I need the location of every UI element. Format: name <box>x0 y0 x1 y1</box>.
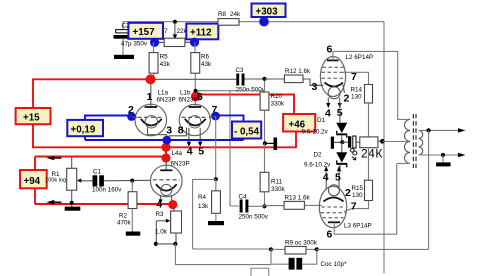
voltage label +0,19 <box>67 120 103 136</box>
potentiometer R1 100k log <box>45 157 82 207</box>
red node dot L4a anode top <box>161 143 170 152</box>
voltage label +303 <box>252 4 286 18</box>
triode L1a 6N23P envelope <box>135 104 167 136</box>
node dot R10/R11 midpoint <box>263 141 267 145</box>
L2 cathode stub pin 2 <box>343 85 345 94</box>
wire L1b anode to C4 (top segment) <box>196 91 239 206</box>
svg-text:R10: R10 <box>271 93 283 100</box>
resistor R4 13k <box>198 179 220 221</box>
svg-text:2: 2 <box>345 187 351 199</box>
node dot R9 left <box>269 247 273 251</box>
node blue dot left of 22k <box>150 38 159 47</box>
voltage label +157 <box>128 23 163 39</box>
L2 grid1 entry <box>310 84 324 86</box>
pentode L3 6P14P envelope <box>319 186 346 227</box>
svg-text:R5: R5 <box>160 54 169 61</box>
resistor R13 1.6k <box>265 195 323 210</box>
node dot secondary top / feedback <box>427 128 431 132</box>
node dot zener/cap <box>340 140 344 144</box>
L1b heater leads with arrows pins 4 5 <box>187 128 205 158</box>
svg-text:R14: R14 <box>351 87 363 94</box>
resistor R15 130 <box>344 148 373 212</box>
tube label L4a 6N23P <box>171 150 190 168</box>
red node dot L1b anode pin6 <box>191 91 201 101</box>
node A dot (C3/R12/R10) <box>262 77 266 81</box>
red wire measurement line mid (y147) <box>32 146 296 148</box>
svg-text:6N23P: 6N23P <box>171 160 190 167</box>
svg-text:4: 4 <box>323 172 329 184</box>
capacitor C1 100n 160v <box>82 168 151 193</box>
wire feedback riser <box>428 130 430 249</box>
L4a grid (dashed) <box>153 179 180 181</box>
transformer core <box>413 114 416 168</box>
L1a heater ring <box>145 116 157 128</box>
svg-text:4: 4 <box>325 108 331 120</box>
svg-text:7: 7 <box>351 71 357 83</box>
wire branch y90.7 to R10 top <box>230 90 265 92</box>
svg-text:4: 4 <box>187 146 193 158</box>
svg-text:6: 6 <box>197 91 203 103</box>
resistor R14 130 <box>351 85 373 137</box>
ground bar secondary <box>436 162 451 166</box>
tube label L1a 6N23P <box>157 89 176 103</box>
svg-text:13k: 13k <box>198 203 209 210</box>
svg-text:+0,19: +0,19 <box>71 125 96 136</box>
resistor R2 470k <box>117 181 137 232</box>
red wire +46 riser bottom <box>295 132 297 149</box>
svg-text:3: 3 <box>312 81 318 93</box>
svg-text:+157: +157 <box>133 27 156 38</box>
svg-text:47µ 350v: 47µ 350v <box>121 41 148 48</box>
svg-text:L1a: L1a <box>158 89 169 96</box>
L3 heater leads arrows pins 4 5 <box>323 166 341 190</box>
svg-text:24К: 24К <box>361 147 383 161</box>
L1b grid (dashed) <box>182 116 209 118</box>
transformer primary bottom stub <box>397 163 410 165</box>
capacitor cathode bypass (electrolytic) <box>342 136 356 148</box>
wire pin2 into L1a grid <box>132 116 138 118</box>
L1a cathode lead <box>148 128 167 140</box>
L4a anode plate and lead <box>160 160 172 170</box>
svg-text:1: 1 <box>147 91 153 103</box>
svg-text:1.0k: 1.0k <box>155 229 168 236</box>
L4a cathode arc <box>156 184 177 191</box>
ground below C2 <box>114 55 134 59</box>
L1b cathode arc <box>185 119 206 126</box>
L3 anode plate and lead to transformer <box>328 164 397 235</box>
L4a heater/cathode leads <box>159 195 172 204</box>
resistor R5 43k <box>149 42 171 79</box>
svg-text:R11: R11 <box>271 179 283 186</box>
red wire L1b anode to +46 (horizontal) <box>198 94 294 96</box>
L3 heater circle <box>329 185 340 196</box>
svg-text:8: 8 <box>178 125 184 137</box>
svg-text:43k: 43k <box>201 61 212 68</box>
wire midpoint to ground bar <box>265 142 274 144</box>
blue wire grid L1a loop (left) <box>85 116 132 141</box>
svg-text:3: 3 <box>166 125 172 137</box>
svg-text:+112: +112 <box>190 28 212 39</box>
svg-text:330k: 330k <box>271 100 286 107</box>
resistor R11 330k <box>260 143 285 206</box>
svg-text:130: 130 <box>351 94 362 101</box>
L2 cathode arc <box>325 83 344 87</box>
secondary ground lead <box>442 155 444 162</box>
svg-text:130: 130 <box>352 192 363 199</box>
svg-text:R4: R4 <box>198 194 207 201</box>
wire feedback bottom rail y249 <box>193 248 271 250</box>
svg-text:6N23P: 6N23P <box>179 96 198 103</box>
red wire input line top y156.5 <box>35 156 166 158</box>
svg-text:D2: D2 <box>314 152 323 159</box>
red node dot L4a anode <box>161 153 170 162</box>
blue node dot pin2 <box>127 112 136 121</box>
svg-text:D1: D1 <box>317 117 326 124</box>
svg-text:100k log: 100k log <box>45 178 66 184</box>
wire feedback branch to lower left corner <box>193 179 216 249</box>
wire center tap to primary <box>382 141 406 143</box>
svg-text:24k: 24k <box>230 11 241 18</box>
L2 heater circle <box>328 87 340 99</box>
node dot B+ / center tap <box>380 139 385 144</box>
svg-text:+15: +15 <box>23 112 40 123</box>
svg-text:9.6-10.2v: 9.6-10.2v <box>302 129 329 136</box>
svg-text:2: 2 <box>344 93 350 105</box>
L2 screen tap wire to R14 <box>343 72 369 84</box>
zener D1 <box>302 103 348 142</box>
tube label L1b 6N23P <box>179 89 198 103</box>
L1a grid (dashed) <box>138 116 165 118</box>
node dot secondary bottom <box>441 153 445 157</box>
L4a heater circle <box>161 184 172 195</box>
node dot R9 right <box>315 247 319 251</box>
voltage label +15 <box>16 108 51 124</box>
capacitor C3 250n 500v <box>236 67 266 94</box>
svg-text:- 0,54: - 0,54 <box>234 127 260 138</box>
svg-text:L3 6P14P: L3 6P14P <box>344 223 372 230</box>
L2 grids (dashed rows) <box>322 67 345 78</box>
svg-text:R8: R8 <box>218 11 227 18</box>
ground bar (vertical) at R10/R11 midpoint <box>274 138 278 151</box>
wire L1a anode to C3 <box>151 78 237 80</box>
svg-text:L4a: L4a <box>172 150 183 157</box>
wire top supply rail <box>123 22 384 30</box>
input arrow bottom <box>47 200 62 205</box>
red wire +46 riser top <box>293 94 295 114</box>
voltage label -0,54 <box>232 122 261 139</box>
svg-text:470k: 470k <box>117 220 132 227</box>
capacitor Coc 10p* (parallel R9) <box>251 249 347 276</box>
node dot R3 wiper <box>154 242 158 246</box>
svg-text:L2 6P14P: L2 6P14P <box>346 54 374 61</box>
output arrow top <box>458 128 466 132</box>
red wire L1a anode to +15 (horizontal) <box>33 78 151 80</box>
secondary bottom lead <box>419 154 461 156</box>
resistor R8 24k <box>218 11 241 25</box>
capacitor C2 47u 350v <box>114 22 148 54</box>
svg-text:6: 6 <box>327 44 333 56</box>
svg-text:9.6-10.2v: 9.6-10.2v <box>304 162 331 169</box>
node dot pin7/R4/feedback <box>214 177 218 181</box>
resistor R10 330k <box>260 81 285 143</box>
cropped label box bottom edge <box>251 268 269 276</box>
svg-text:R9 oc 300k: R9 oc 300k <box>285 239 318 246</box>
triode L1b 6N23P envelope <box>179 104 210 135</box>
node blue dot below +303 <box>259 17 269 27</box>
transformer primary top stub <box>397 118 410 120</box>
ground bar (vertical) left of zener node <box>331 137 334 149</box>
triode L4a 6N23P envelope <box>151 165 183 197</box>
wire pin7 into L1b grid <box>209 116 216 119</box>
node dot C1/R2/L4a grid <box>130 179 134 183</box>
resistor R6 43k <box>191 42 212 106</box>
svg-text:5: 5 <box>198 146 204 158</box>
svg-text:7: 7 <box>164 28 168 35</box>
svg-text:43k: 43k <box>160 61 171 68</box>
transformer primary winding <box>405 119 411 163</box>
resistor R12 1.6k <box>265 68 312 83</box>
svg-text:250n 500v: 250n 500v <box>239 214 269 221</box>
red wire +94 riser bottom <box>34 188 36 204</box>
wire B+ vertical right <box>383 22 385 274</box>
ground below R4 <box>208 221 224 225</box>
svg-text:+94: +94 <box>24 176 41 187</box>
node dot R3 bottom <box>173 242 177 246</box>
blue node dot pin7 <box>211 112 220 121</box>
wire R9 right to feedback riser <box>317 248 429 250</box>
red node dot L4a cathode <box>168 200 177 209</box>
L1a anode plate and lead <box>145 84 157 107</box>
node B dot (C4/R11/R13) <box>262 204 266 208</box>
voltage label +94 <box>20 170 47 188</box>
red link between dots <box>165 147 167 158</box>
L1b heater ring <box>189 116 201 128</box>
L1b cathode lead <box>169 128 186 140</box>
L3 grids (dashed rows) <box>321 207 346 218</box>
red wire +15 riser top <box>32 78 34 108</box>
trimmer potentiometer 22k <box>155 22 195 47</box>
R3 bottom lead <box>175 233 177 244</box>
svg-text:C1: C1 <box>93 168 102 175</box>
pentode L2 6P14P envelope <box>320 57 345 97</box>
blue wire cathode rail y139.5 <box>85 139 244 141</box>
svg-text:R3: R3 <box>156 211 165 218</box>
ground below R1 <box>65 207 81 211</box>
input arrow top <box>47 156 62 161</box>
svg-text:R2: R2 <box>119 212 128 219</box>
secondary top lead <box>419 129 461 131</box>
svg-text:L1b: L1b <box>180 89 191 96</box>
svg-text:6: 6 <box>327 229 333 241</box>
svg-text:+303: +303 <box>256 7 279 18</box>
L1b anode plate <box>189 106 201 108</box>
node small dot L1b anode branch <box>194 89 198 93</box>
voltage label +112 <box>186 24 218 40</box>
voltage label +46 <box>283 114 315 132</box>
resistor R9 oc 300k <box>271 239 318 254</box>
transformer secondary winding <box>419 130 423 155</box>
wire R3 bottom rail <box>156 243 176 245</box>
red node dot L1a anode <box>146 74 156 84</box>
blue wire grid L1b loop (right vertical) <box>216 115 244 140</box>
output arrow bottom <box>458 153 466 157</box>
svg-text:6N23P: 6N23P <box>157 96 176 103</box>
svg-text:5: 5 <box>335 172 341 184</box>
L2 heater leads arrows pins 4 5 <box>325 98 343 120</box>
svg-text:Coc 10p*: Coc 10p* <box>321 261 347 268</box>
resistor 24K (to B+) <box>356 137 382 148</box>
svg-text:7: 7 <box>351 201 357 213</box>
red wire +94 riser top <box>34 157 36 171</box>
wire C3 to node A <box>245 78 265 80</box>
svg-text:R13 1.6k: R13 1.6k <box>285 195 311 202</box>
ground below R2 <box>126 232 141 236</box>
L3 cathode arc <box>324 198 344 202</box>
potentiometer R3 1.0k <box>155 205 182 244</box>
node dot on top rail <box>173 20 177 24</box>
cursor mark <box>350 148 356 159</box>
svg-text:R6: R6 <box>201 54 210 61</box>
svg-text:4: 4 <box>156 199 162 211</box>
L2 anode plate and lead to transformer <box>327 51 398 119</box>
svg-text:100n 160v: 100n 160v <box>92 186 122 193</box>
capacitor C4 250n 500v <box>239 193 269 220</box>
svg-text:C3: C3 <box>236 67 245 74</box>
svg-text:R12 1.6k: R12 1.6k <box>285 68 311 75</box>
red wire +15 riser bottom <box>32 124 34 147</box>
svg-text:330k: 330k <box>271 186 286 193</box>
wire R12 to L2 grid <box>303 79 322 86</box>
L1a cathode arc <box>141 119 162 126</box>
wire R3 to feedback divider <box>175 244 271 265</box>
blue node dot cathodes 3/8 <box>162 136 171 145</box>
zener D2 <box>304 142 347 172</box>
wire pin7 down to R4 <box>215 116 217 179</box>
node blue dot right of 22k <box>190 38 199 47</box>
svg-text:C4: C4 <box>239 193 248 200</box>
red wire input line bottom y204 <box>35 203 173 205</box>
